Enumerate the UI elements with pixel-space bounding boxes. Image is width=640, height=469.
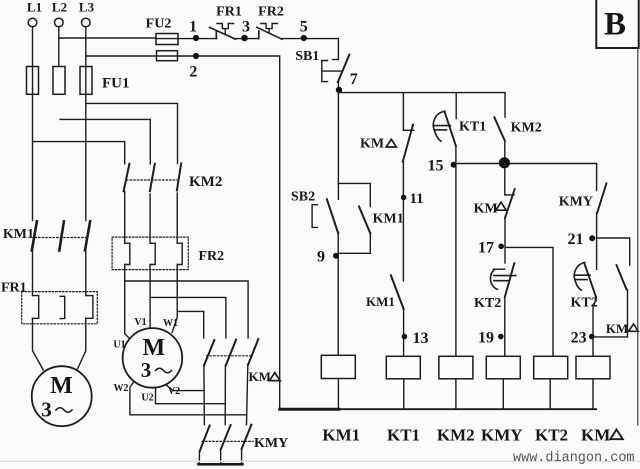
svg-text:KM1: KM1 bbox=[373, 212, 404, 227]
wire KT2 to node 23 and KM-delta coil bbox=[593, 298, 596, 357]
svg-text:13: 13 bbox=[413, 330, 429, 347]
svg-text:B: B bbox=[604, 7, 626, 43]
wire line 1 to SB1 bbox=[282, 39, 338, 60]
svg-text:21: 21 bbox=[568, 231, 584, 248]
wire branch U1 line to KM-delta pole3 bbox=[125, 281, 248, 338]
thermal relay FR2 heaters box bbox=[112, 237, 224, 270]
svg-text:KT1: KT1 bbox=[387, 426, 420, 445]
contactor KMY main contacts bbox=[200, 425, 288, 451]
bottom scan tint line bbox=[0, 460, 640, 462]
wire branch L1 to KM2 pole1 bbox=[33, 142, 125, 164]
svg-text:FR2: FR2 bbox=[199, 249, 225, 264]
wire SB2 to node 9 and KM1 coil bbox=[337, 233, 339, 355]
coil KM-delta bbox=[576, 356, 623, 444]
svg-text:L2: L2 bbox=[52, 0, 67, 15]
wire SB1 to node 7 and down to SB2 bbox=[337, 82, 339, 199]
wire L3 phase down to fuse bbox=[85, 27, 87, 67]
right border line bbox=[637, 48, 639, 425]
time relay contact KT2 (delayed, right) bbox=[571, 262, 598, 310]
svg-text:SB1: SB1 bbox=[295, 49, 319, 64]
contactor KM2 main contacts bbox=[124, 163, 223, 191]
motor M1 bbox=[32, 366, 92, 426]
wire KMY contact column bbox=[596, 164, 598, 191]
wire node21 branch to parallel KM-delta contact bbox=[597, 238, 630, 265]
wire parallel contact back to node 23 bbox=[593, 289, 628, 337]
coil KMY bbox=[481, 356, 523, 444]
svg-text:KT2: KT2 bbox=[535, 426, 568, 445]
svg-text:19: 19 bbox=[478, 330, 494, 347]
wire branch L3 to KM2 pole3 bbox=[86, 103, 178, 163]
wire L1 phase down to fuse bbox=[32, 27, 34, 67]
label KM-delta (power) bbox=[249, 369, 281, 384]
node 23 bbox=[571, 330, 595, 347]
svg-text:L3: L3 bbox=[79, 0, 95, 15]
node 3 bbox=[241, 19, 250, 42]
contactor KM1 main contacts bbox=[3, 221, 90, 250]
wire bottom control bus bbox=[280, 408, 597, 411]
pushbutton SB1 (stop, NC) bbox=[295, 49, 349, 82]
wire control line 1 from L2 bbox=[59, 37, 156, 39]
pushbutton SB2 (start, NO) bbox=[291, 190, 338, 234]
contact KMY NO (control) bbox=[559, 183, 607, 212]
svg-text:KM: KM bbox=[249, 369, 271, 384]
svg-text:KM1: KM1 bbox=[3, 227, 34, 242]
node 11 bbox=[401, 191, 424, 207]
fuse FU1 pole 3 bbox=[80, 67, 92, 95]
wire control bus from node 7 bbox=[338, 92, 505, 94]
svg-text:KM2: KM2 bbox=[437, 426, 475, 445]
node 17 bbox=[478, 240, 504, 257]
svg-text:3: 3 bbox=[41, 398, 52, 422]
contact KM2 NO (control) bbox=[494, 117, 541, 141]
svg-text:U1: U1 bbox=[113, 339, 125, 350]
svg-text:KM: KM bbox=[360, 137, 384, 152]
wire FR2 pole2 to V1 bbox=[149, 265, 151, 329]
svg-text:FR1: FR1 bbox=[216, 5, 242, 20]
thermal relay FR1 heaters box bbox=[1, 281, 97, 324]
svg-text:KM2: KM2 bbox=[511, 121, 542, 136]
wire junction down to KM-delta NC bbox=[504, 164, 506, 195]
svg-text:3: 3 bbox=[242, 19, 250, 36]
wire FR2 pole3 to W1 bbox=[172, 265, 177, 333]
svg-text:M: M bbox=[50, 373, 73, 399]
thermal contact FR1 (control) bbox=[210, 5, 242, 40]
wire FR1 to motor M1 left lead bbox=[33, 318, 44, 370]
wire line 1 continue to FR contacts bbox=[178, 38, 217, 40]
contact KM-delta NC (before KT1 coil) bbox=[360, 125, 414, 162]
svg-text:KT1: KT1 bbox=[459, 120, 486, 135]
node 5 bbox=[300, 19, 308, 42]
svg-text:11: 11 bbox=[410, 191, 424, 207]
svg-text:2: 2 bbox=[189, 64, 197, 81]
svg-text:KM1: KM1 bbox=[322, 426, 360, 445]
svg-text:FR1: FR1 bbox=[1, 281, 27, 296]
wire node17 branch to KT2 coil bbox=[506, 247, 553, 356]
svg-text:KM: KM bbox=[474, 202, 498, 217]
contactor KM-delta main contacts bbox=[204, 339, 258, 365]
wire KM1 seal branch bbox=[338, 183, 370, 253]
motor M2 bbox=[123, 328, 183, 388]
wire L2 phase down to fuse bbox=[58, 27, 60, 67]
contact KM-delta NO (parallel, self-hold) bbox=[606, 265, 638, 336]
svg-text:KMY: KMY bbox=[254, 436, 288, 451]
wire control line 2 from L3 bbox=[86, 55, 157, 57]
coil KT2 bbox=[534, 356, 568, 444]
time relay contact KT1 (delayed NO) bbox=[433, 111, 486, 146]
svg-text:KMY: KMY bbox=[559, 195, 593, 210]
terminal L3 bbox=[79, 0, 95, 27]
svg-text:15: 15 bbox=[428, 158, 444, 175]
node 21 bbox=[568, 231, 596, 248]
wire KM-delta pole2 down to KMY pole2 bbox=[224, 365, 226, 425]
frame B box bbox=[596, 0, 638, 48]
node 19 bbox=[478, 330, 504, 347]
wire KM-delta pole1 down to KMY pole1 bbox=[203, 365, 206, 425]
wire motor W2 lead bbox=[130, 381, 247, 414]
fuse FU2 upper bbox=[156, 34, 178, 45]
coil KM1 bbox=[321, 355, 360, 444]
wire KM1 pole1 to FR1 bbox=[32, 251, 34, 296]
contact KM1 seal (NO) bbox=[359, 206, 404, 233]
wire motor V2 lead bbox=[167, 386, 204, 391]
coil KT1 bbox=[386, 356, 420, 444]
junction big dot bbox=[499, 157, 510, 168]
wire node15 horizontal to KMY branch bbox=[454, 163, 597, 165]
svg-text:1: 1 bbox=[189, 19, 197, 36]
wire L3 down to KM1 bbox=[85, 94, 87, 220]
node 15 bbox=[428, 158, 457, 175]
svg-text:KT2: KT2 bbox=[474, 296, 501, 311]
svg-text:KM: KM bbox=[606, 321, 628, 336]
svg-text:KM: KM bbox=[581, 426, 610, 445]
svg-text:KMY: KMY bbox=[481, 426, 523, 445]
thermal contact FR2 (control) bbox=[257, 5, 284, 40]
wire between FR1 and FR2 contacts bbox=[236, 38, 259, 40]
wire branch W1 line to KM-delta pole1 bbox=[177, 311, 204, 338]
wire to node 17 bbox=[504, 218, 506, 263]
wire FR2 pole1 to U1 bbox=[125, 265, 130, 339]
wire branch KT1-coil column bbox=[402, 93, 404, 131]
svg-text:www.diangon.com: www.diangon.com bbox=[513, 451, 635, 466]
fuse FU2 lower bbox=[157, 51, 178, 61]
wire KT1 contact to node 15 and KM2 coil bbox=[455, 146, 457, 356]
svg-text:L1: L1 bbox=[27, 0, 42, 15]
node 1 bbox=[189, 19, 199, 42]
svg-text:V1: V1 bbox=[134, 317, 146, 328]
svg-text:FU2: FU2 bbox=[146, 17, 172, 32]
svg-text:U2: U2 bbox=[141, 393, 153, 404]
wire branch L2 to KM2 pole2 bbox=[60, 119, 150, 163]
wire KMY contact to node 21 bbox=[596, 213, 598, 269]
wire KM-delta NC to KM1 contact bbox=[402, 162, 404, 281]
wire L1 down to KM1 bbox=[32, 94, 34, 220]
node 9 bbox=[317, 249, 339, 266]
wire KMY star point bus bbox=[199, 449, 243, 464]
svg-text:KM1: KM1 bbox=[366, 294, 395, 309]
node 7 bbox=[336, 71, 358, 93]
terminal L2 bbox=[52, 0, 67, 27]
wire KM-delta pole3 down to KMY pole3 bbox=[247, 365, 248, 425]
wire motor U2 lead bbox=[156, 388, 226, 404]
wire KM2 poles down to FR2 bbox=[125, 191, 178, 243]
wire branch KT1 contact column bbox=[455, 93, 457, 119]
wire branch KM2 contact column bbox=[504, 93, 506, 118]
svg-text:17: 17 bbox=[478, 240, 494, 257]
contact KM-delta NC (KMY branch) bbox=[474, 189, 515, 218]
wire KM1 contact to KT1 coil bbox=[403, 309, 405, 356]
svg-text:FR2: FR2 bbox=[258, 5, 284, 20]
wire line 2 to right and down to bus bbox=[178, 56, 280, 409]
node 13 bbox=[402, 330, 429, 347]
node 2 bbox=[189, 53, 199, 81]
wire KM2 contact to junction bbox=[504, 141, 506, 164]
time relay contact KT2 (delayed, KMY branch) bbox=[474, 263, 516, 311]
svg-text:9: 9 bbox=[317, 249, 325, 266]
svg-text:5: 5 bbox=[300, 19, 308, 36]
wire branch V1 line to KM-delta pole2 bbox=[150, 297, 226, 338]
fuse FU1 pole 2 bbox=[53, 67, 65, 95]
terminal L1 bbox=[27, 0, 42, 27]
contact KM1 NO (KT1 branch) bbox=[366, 275, 404, 309]
svg-text:SB2: SB2 bbox=[291, 190, 315, 205]
svg-text:W2: W2 bbox=[114, 383, 129, 394]
wire KT2 to node 19 and KMY coil bbox=[504, 297, 506, 356]
fuse FU1 pole 1 bbox=[27, 67, 39, 95]
wire FR1 to motor M1 right lead bbox=[78, 318, 86, 368]
wire KM1 pole3 to FR1 bbox=[85, 251, 87, 296]
svg-text:3: 3 bbox=[141, 358, 152, 382]
coil KM2 bbox=[437, 356, 475, 444]
svg-text:7: 7 bbox=[350, 71, 358, 88]
svg-text:FU1: FU1 bbox=[102, 76, 130, 92]
svg-text:W1: W1 bbox=[163, 318, 178, 329]
svg-text:KM2: KM2 bbox=[189, 174, 222, 190]
svg-text:23: 23 bbox=[571, 330, 587, 347]
